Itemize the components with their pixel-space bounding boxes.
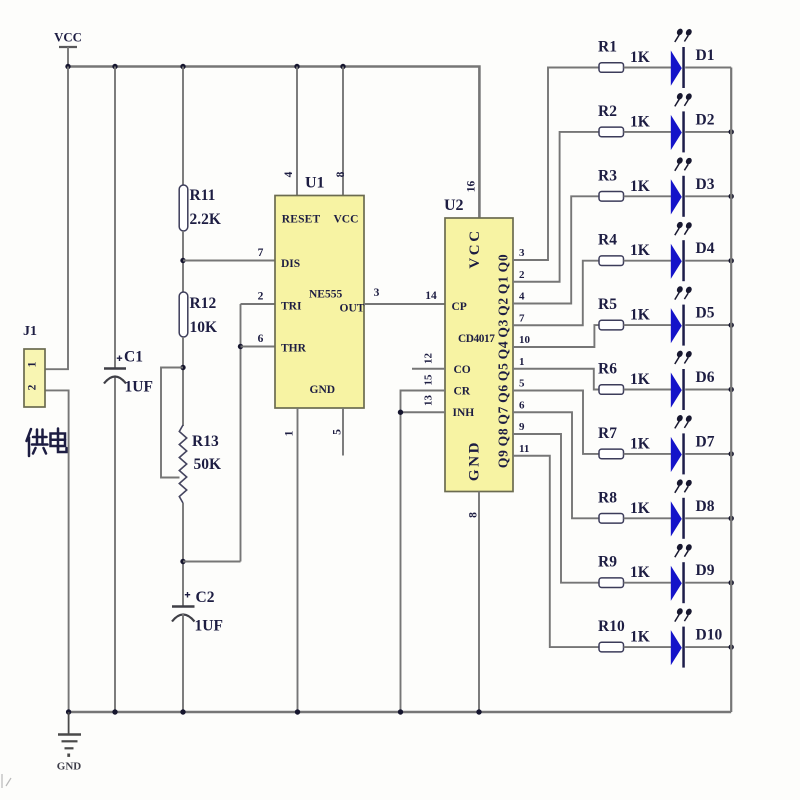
LED D5 [671, 286, 715, 345]
svg-text:D10: D10 [696, 627, 723, 644]
svg-text:Q2: Q2 [496, 297, 511, 316]
wire R5 to D5 [624, 324, 672, 326]
junction on VCC rail at C1 branch [112, 64, 117, 69]
resistor R11 2.2K [179, 185, 221, 231]
wire D8 cathode to right rail [685, 517, 731, 519]
wire U1 OUT pin 3 to U2 CP pin 14 [364, 303, 445, 305]
resistor R5 1K [598, 296, 650, 330]
wire D6 cathode to right rail [685, 389, 731, 391]
wire LED cathode rail [730, 68, 732, 713]
svg-text:D6: D6 [696, 369, 715, 386]
junction THR tap [238, 344, 243, 349]
junction DIS node [180, 258, 185, 263]
junction right rail row 4 [729, 258, 734, 263]
wire C1 to ground rail [114, 377, 116, 712]
VCC power symbol [54, 31, 82, 67]
svg-text:4: 4 [283, 171, 295, 177]
svg-text:5: 5 [519, 378, 525, 390]
wire U2 Q1 pin 2 to R2 [513, 132, 599, 282]
svg-text:Q1: Q1 [496, 275, 511, 294]
wire R13 wiper bypass [161, 368, 183, 478]
svg-text:U1: U1 [305, 175, 325, 192]
svg-text:R1: R1 [598, 39, 617, 56]
svg-text:4: 4 [519, 291, 525, 303]
svg-text:10: 10 [519, 334, 531, 346]
junction right rail row 2 [729, 129, 734, 134]
wire U2 Q9 pin 11 to R10 [513, 456, 599, 647]
wire ground rail [69, 711, 732, 714]
connector J1 [23, 324, 45, 407]
svg-text:1K: 1K [630, 435, 650, 452]
svg-text:3: 3 [519, 247, 525, 259]
junction ground rail at C1 [112, 709, 117, 714]
wire R4 to D4 [624, 260, 672, 262]
svg-text:13: 13 [423, 395, 435, 407]
junction on VCC rail at U1 pin 4 [294, 64, 299, 69]
resistor R6 1K [598, 361, 650, 395]
svg-text:VCC: VCC [334, 214, 359, 226]
capacitor C1 1UF [104, 349, 153, 396]
svg-text:D4: D4 [696, 240, 715, 257]
junction ground rail at U1 pin 1 [295, 709, 300, 714]
wire D1 cathode to right rail [685, 67, 731, 69]
wire U2 GND pin 8 to ground rail [478, 492, 480, 713]
svg-text:1K: 1K [630, 307, 650, 324]
svg-text:2: 2 [258, 290, 264, 302]
svg-text:1K: 1K [630, 564, 650, 581]
wire C2 node to TRI/THR vertical [183, 561, 241, 563]
svg-text:D7: D7 [696, 433, 715, 450]
svg-text:1K: 1K [630, 113, 650, 130]
svg-text:Q6: Q6 [496, 384, 511, 403]
svg-text:C1: C1 [124, 349, 143, 366]
svg-text:CO: CO [454, 364, 471, 376]
junction C2/THR node [180, 559, 185, 564]
wire R2 to D2 [624, 131, 672, 133]
wire to U1 TRI pin 2 [241, 303, 276, 305]
svg-text:INH: INH [453, 407, 475, 419]
svg-text:1K: 1K [630, 371, 650, 388]
LED D3 [671, 157, 715, 216]
wire R6 to D6 [624, 389, 672, 391]
wire D3 cathode to right rail [685, 195, 731, 197]
svg-text:R9: R9 [598, 554, 617, 571]
svg-text:NE555: NE555 [309, 289, 342, 301]
svg-text:Q9: Q9 [496, 449, 511, 468]
resistor R10 1K [598, 618, 650, 652]
wire U2 Q0 pin 3 to R1 [513, 68, 599, 261]
svg-text:11: 11 [519, 443, 529, 455]
wire U2 CR pin 15 to ground [401, 391, 446, 713]
svg-text:THR: THR [281, 343, 307, 355]
resistor R9 1K [598, 554, 650, 588]
svg-text:GND: GND [57, 761, 82, 773]
wire VCC to J1 pin 1 [45, 67, 68, 370]
svg-text:50K: 50K [194, 456, 222, 473]
junction on VCC rail at U1 pin 8 [340, 64, 345, 69]
resistor R12 10K [179, 292, 217, 337]
svg-text:16: 16 [466, 181, 478, 193]
svg-text:Q3: Q3 [496, 319, 511, 338]
svg-text:1: 1 [519, 356, 525, 368]
wire C2 to ground rail [182, 614, 184, 712]
U2 CO pin 12 stub [412, 368, 445, 370]
wire U2 INH pin 13 to ground vertical [401, 411, 446, 413]
svg-text:R13: R13 [192, 433, 219, 450]
svg-text:D5: D5 [696, 305, 715, 322]
op-amp U1 NE555 [275, 171, 365, 408]
svg-text:1K: 1K [630, 242, 650, 259]
resistor R3 1K [598, 167, 650, 201]
resistor R1 1K [598, 39, 650, 73]
junction right rail row 10 [729, 644, 734, 649]
junction on VCC rail at J1 branch [65, 64, 70, 69]
svg-text:U2: U2 [444, 197, 464, 214]
svg-text:7: 7 [519, 312, 525, 324]
wire R11 to R12 [182, 231, 184, 294]
svg-text:D3: D3 [696, 176, 715, 193]
svg-text:D8: D8 [696, 498, 715, 515]
junction right rail row 5 [729, 322, 734, 327]
svg-text:Q8: Q8 [496, 428, 511, 447]
wire VCC rail to C1 [114, 67, 116, 369]
svg-text:1UF: 1UF [125, 379, 153, 396]
wire U2 Q7 pin 6 to R8 [513, 412, 599, 518]
wire R3 to D3 [624, 195, 672, 197]
wire to U1 THR pin 6 [241, 346, 276, 348]
svg-text:8: 8 [335, 171, 347, 177]
wire R1 to D1 [624, 67, 672, 69]
svg-text:OUT: OUT [340, 303, 365, 315]
wire U1 pin 8 to VCC rail [342, 67, 344, 197]
LED D4 [671, 222, 715, 281]
svg-text:VCC: VCC [467, 228, 483, 268]
resistor R2 1K [598, 103, 650, 137]
svg-text:D9: D9 [696, 562, 715, 579]
wire TRI/THR vertical [240, 304, 242, 562]
svg-text:DIS: DIS [281, 258, 300, 270]
decorative [2, 774, 11, 788]
wire D9 cathode to right rail [685, 582, 731, 584]
wire R12 to R13 [182, 337, 184, 426]
U1 pin 5 stub [342, 408, 344, 456]
svg-text:R11: R11 [190, 187, 216, 204]
junction ground rail at C2 [180, 709, 185, 714]
junction right rail row 8 [729, 516, 734, 521]
svg-text:8: 8 [467, 512, 479, 518]
svg-text:12: 12 [423, 353, 435, 365]
ground symbol [57, 712, 82, 773]
svg-text:D2: D2 [696, 111, 715, 128]
svg-text:2: 2 [27, 384, 39, 390]
svg-text:R12: R12 [190, 295, 217, 312]
resistor R4 1K [598, 232, 650, 266]
svg-text:5: 5 [332, 429, 344, 435]
capacitor C2 1UF [172, 589, 223, 635]
junction ground rail at J1 [66, 709, 71, 714]
junction right rail row 7 [729, 451, 734, 456]
svg-text:J1: J1 [23, 324, 37, 339]
svg-text:9: 9 [519, 421, 525, 433]
junction on VCC rail at R11 branch [180, 64, 185, 69]
wire U1 pin 4 to VCC rail [296, 67, 298, 197]
LED D1 [671, 29, 715, 88]
svg-text:TRI: TRI [281, 301, 302, 313]
svg-text:10K: 10K [190, 319, 218, 336]
svg-text:RESET: RESET [282, 214, 321, 226]
svg-text:6: 6 [519, 399, 525, 411]
svg-text:Q5: Q5 [496, 362, 511, 381]
wire D4 cathode to right rail [685, 260, 731, 262]
junction R12/R13 node [180, 365, 185, 370]
junction INH/CR [398, 410, 403, 415]
potentiometer R13 50K zigzag [179, 425, 221, 503]
svg-text:CD4017: CD4017 [458, 333, 495, 345]
IC U2 CD4017 [444, 181, 513, 492]
svg-text:15: 15 [423, 374, 435, 386]
wire D10 cathode to right rail [685, 646, 731, 648]
LED D2 [671, 93, 715, 152]
svg-text:CP: CP [452, 301, 467, 313]
svg-text:1: 1 [284, 430, 296, 436]
wire R10 to D10 [624, 646, 672, 648]
wire U2 Q3 pin 7 to R4 [513, 261, 599, 326]
svg-text:R5: R5 [598, 296, 617, 313]
svg-text:VCC: VCC [54, 31, 82, 45]
wire U2 Q4 pin 10 to R5 [513, 325, 599, 347]
label 供电 (power supply) [27, 429, 67, 457]
svg-text:6: 6 [258, 333, 264, 345]
resistor R8 1K [598, 489, 650, 523]
svg-text:3: 3 [374, 287, 380, 299]
wire VCC rail to R11 [182, 67, 184, 188]
svg-text:1UF: 1UF [195, 618, 223, 635]
svg-text:14: 14 [425, 290, 437, 302]
junction right rail row 9 [729, 580, 734, 585]
wire D7 cathode to right rail [685, 453, 731, 455]
svg-text:CR: CR [454, 385, 471, 397]
svg-text:1K: 1K [630, 49, 650, 66]
wire VCC rail [67, 67, 479, 219]
LED D7 [671, 415, 715, 474]
wire DIS node to U1 pin 7 [183, 260, 275, 262]
wire R13 to C2 node [182, 503, 184, 607]
svg-text:1K: 1K [630, 500, 650, 517]
wire U2 Q6 pin 5 to R7 [513, 391, 599, 454]
svg-text:1K: 1K [630, 629, 650, 646]
LED D9 [671, 544, 715, 603]
svg-text:R3: R3 [598, 167, 617, 184]
svg-text:2.2K: 2.2K [190, 211, 221, 228]
wire D5 cathode to right rail [685, 324, 731, 326]
svg-text:R7: R7 [598, 425, 617, 442]
junction right rail row 6 [729, 387, 734, 392]
svg-text:GND: GND [467, 440, 483, 481]
svg-text:Q4: Q4 [496, 341, 511, 360]
wire U2 Q8 pin 9 to R9 [513, 434, 599, 583]
wire J1 pin 2 to ground rail [45, 390, 69, 712]
svg-text:R4: R4 [598, 232, 617, 249]
wire R7 to D7 [624, 453, 672, 455]
wire D2 cathode to right rail [685, 131, 731, 133]
LED D6 [671, 351, 715, 410]
wire R9 to D9 [624, 582, 672, 584]
wire R8 to D8 [624, 517, 672, 519]
svg-text:R8: R8 [598, 489, 617, 506]
wire U1 GND pin 1 to ground rail [297, 408, 299, 712]
wire U2 Q5 pin 1 to R6 [513, 369, 599, 390]
svg-text:D1: D1 [696, 47, 715, 64]
junction right rail row 3 [729, 194, 734, 199]
LED D8 [671, 479, 715, 538]
svg-text:2: 2 [519, 269, 525, 281]
svg-text:R6: R6 [598, 361, 617, 378]
svg-text:1K: 1K [630, 178, 650, 195]
svg-text:Q0: Q0 [496, 254, 511, 273]
resistor R7 1K [598, 425, 650, 459]
svg-text:C2: C2 [196, 589, 215, 606]
svg-text:Q7: Q7 [496, 406, 511, 425]
svg-text:GND: GND [310, 384, 336, 396]
svg-text:R10: R10 [598, 618, 625, 635]
LED D10 [671, 608, 723, 667]
junction ground rail at U2 pin 8 [476, 709, 481, 714]
wire U2 Q2 pin 4 to R3 [513, 196, 599, 303]
junction ground rail at CR/INH [398, 709, 403, 714]
svg-text:1: 1 [27, 361, 39, 367]
svg-text:7: 7 [258, 247, 264, 259]
svg-text:R2: R2 [598, 103, 617, 120]
